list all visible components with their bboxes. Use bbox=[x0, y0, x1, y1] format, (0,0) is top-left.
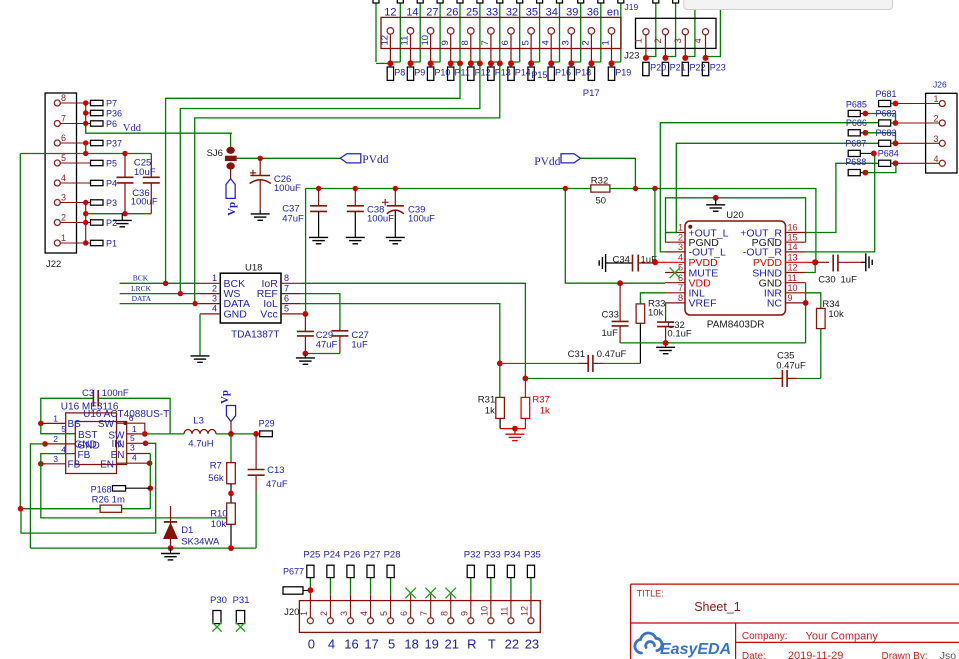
svg-text:5: 5 bbox=[678, 263, 683, 273]
connector J20 bbox=[299, 601, 540, 633]
svg-text:1uF: 1uF bbox=[841, 274, 858, 285]
svg-text:7: 7 bbox=[480, 40, 491, 45]
EasyEDA logo bbox=[635, 633, 662, 653]
svg-text:1k: 1k bbox=[540, 405, 550, 416]
svg-text:Vdd: Vdd bbox=[123, 123, 142, 134]
svg-text:P15: P15 bbox=[531, 70, 547, 80]
svg-text:U16 ACT4088US-T: U16 ACT4088US-T bbox=[83, 409, 169, 420]
svg-text:100uF: 100uF bbox=[131, 197, 158, 208]
svg-text:2: 2 bbox=[653, 38, 664, 43]
svg-text:C31: C31 bbox=[568, 349, 585, 360]
ground C29 bbox=[304, 354, 306, 358]
svg-text:6: 6 bbox=[399, 611, 409, 616]
capacitor C3 bbox=[92, 390, 94, 407]
svg-text:3: 3 bbox=[678, 242, 683, 252]
net port Vp upper bbox=[230, 170, 232, 179]
svg-text:TITLE:: TITLE: bbox=[637, 589, 664, 599]
svg-text:2: 2 bbox=[61, 213, 66, 223]
svg-text:34: 34 bbox=[546, 7, 558, 19]
svg-text:22: 22 bbox=[505, 637, 519, 652]
svg-text:0: 0 bbox=[308, 637, 315, 652]
wire C31 to R33 bottom bbox=[639, 323, 641, 363]
ground R31 R37 selected bbox=[514, 429, 516, 435]
svg-text:PVdd: PVdd bbox=[534, 156, 560, 168]
svg-text:P18: P18 bbox=[575, 68, 591, 78]
svg-text:C13: C13 bbox=[267, 465, 284, 476]
wire IoR to R37 bbox=[301, 283, 526, 378]
svg-text:Sheet_1: Sheet_1 bbox=[694, 600, 741, 614]
capacitor C29 bbox=[304, 314, 306, 332]
svg-text:5: 5 bbox=[284, 304, 289, 314]
ground J22 caps bbox=[121, 214, 123, 221]
pins U18 right bbox=[281, 282, 301, 284]
pin BS U16 bbox=[41, 422, 66, 424]
svg-text:100uF: 100uF bbox=[367, 213, 394, 224]
wire SHND to PVDD bbox=[806, 262, 816, 272]
svg-text:P686: P686 bbox=[846, 118, 867, 128]
svg-text:P8: P8 bbox=[394, 68, 405, 78]
wire C3 top loop bbox=[41, 398, 94, 423]
svg-text:13: 13 bbox=[788, 253, 798, 263]
ground C26 bbox=[251, 213, 270, 215]
pin IN U16 bbox=[127, 442, 146, 444]
svg-text:10k: 10k bbox=[648, 308, 664, 319]
wire C27 to C29 bottom bbox=[305, 353, 340, 355]
svg-text:C34: C34 bbox=[613, 254, 630, 265]
svg-text:11: 11 bbox=[788, 273, 797, 283]
svg-text:P9: P9 bbox=[414, 68, 425, 78]
svg-text:Vcc: Vcc bbox=[260, 309, 278, 321]
pin SW lower U16 bbox=[127, 433, 145, 435]
svg-text:4: 4 bbox=[61, 444, 66, 454]
resistor R10 bbox=[227, 503, 236, 524]
svg-text:11: 11 bbox=[499, 607, 509, 616]
svg-text:P29: P29 bbox=[259, 419, 275, 429]
svg-text:0.47uF: 0.47uF bbox=[597, 349, 627, 360]
svg-text:6: 6 bbox=[500, 40, 511, 45]
regulator U16 boxes bbox=[66, 413, 117, 474]
pin EN lower U16 bbox=[117, 462, 150, 464]
svg-text:12: 12 bbox=[788, 263, 798, 273]
svg-text:P21: P21 bbox=[670, 63, 686, 73]
svg-text:P22: P22 bbox=[690, 63, 706, 73]
connector J19 bbox=[381, 17, 621, 48]
svg-text:4.7uH: 4.7uH bbox=[188, 439, 213, 450]
net label wire LRCK bbox=[120, 293, 200, 295]
svg-text:4: 4 bbox=[540, 40, 551, 45]
pads P8-P19 bbox=[387, 67, 393, 80]
svg-text:1uF: 1uF bbox=[602, 328, 619, 339]
svg-text:P26: P26 bbox=[344, 550, 361, 561]
svg-text:P5: P5 bbox=[106, 159, 117, 169]
svg-text:1: 1 bbox=[601, 40, 612, 45]
wire PVdd rail bbox=[306, 188, 591, 190]
svg-text:P16: P16 bbox=[555, 68, 571, 78]
svg-text:T: T bbox=[488, 637, 496, 652]
resistor R7 bbox=[230, 434, 232, 463]
resistor R32 bbox=[591, 185, 610, 192]
svg-text:SW: SW bbox=[98, 419, 115, 430]
svg-text:R10: R10 bbox=[210, 508, 227, 519]
pins U20 right bbox=[786, 232, 806, 234]
wire VDD net bbox=[565, 189, 665, 284]
svg-text:3: 3 bbox=[212, 293, 217, 303]
svg-text:3: 3 bbox=[61, 193, 66, 203]
svg-text:R26 1m: R26 1m bbox=[92, 495, 125, 506]
svg-text:10: 10 bbox=[420, 35, 431, 46]
svg-text:21: 21 bbox=[445, 637, 459, 652]
svg-text:EN: EN bbox=[100, 460, 114, 471]
resistor R34 bbox=[817, 308, 826, 328]
svg-text:P33: P33 bbox=[484, 550, 501, 561]
pads P685 P686 P687 P688 bbox=[848, 110, 860, 116]
svg-text:VREF: VREF bbox=[689, 298, 717, 310]
svg-text:3: 3 bbox=[130, 443, 135, 453]
svg-text:4: 4 bbox=[328, 637, 335, 652]
capacitor C38 bbox=[354, 189, 356, 206]
svg-text:0.47uF: 0.47uF bbox=[776, 360, 806, 371]
svg-text:Vp: Vp bbox=[226, 202, 238, 216]
title block frame bbox=[631, 584, 959, 659]
wire P685 jog bbox=[865, 114, 895, 124]
svg-text:P31: P31 bbox=[233, 595, 250, 606]
capacitor C37 bbox=[318, 189, 320, 206]
wire GND pin11 and NC bbox=[805, 283, 807, 343]
svg-text:3: 3 bbox=[53, 454, 58, 464]
svg-text:PVdd: PVdd bbox=[362, 154, 388, 166]
svg-text:P168: P168 bbox=[91, 485, 112, 495]
svg-text:C33: C33 bbox=[602, 310, 619, 321]
svg-text:2: 2 bbox=[678, 232, 683, 242]
svg-text:10: 10 bbox=[479, 606, 489, 616]
ground C32 bbox=[665, 343, 667, 347]
svg-text:R37: R37 bbox=[532, 394, 549, 405]
wire top header columns J19 bbox=[375, 3, 377, 62]
svg-text:NC: NC bbox=[767, 298, 783, 310]
connector J26 bbox=[926, 93, 957, 173]
svg-text:Jso: Jso bbox=[940, 650, 957, 659]
inductor L3 bbox=[184, 430, 216, 434]
svg-text:4: 4 bbox=[693, 38, 704, 43]
junction dots J22 bbox=[83, 100, 88, 105]
pin FB U16 bbox=[41, 463, 66, 465]
svg-text:P24: P24 bbox=[323, 550, 340, 561]
svg-text:5: 5 bbox=[520, 40, 531, 45]
svg-text:39: 39 bbox=[566, 7, 578, 19]
svg-text:BS: BS bbox=[68, 419, 82, 430]
diode D1 SK34WA bbox=[170, 506, 172, 523]
svg-text:1: 1 bbox=[633, 38, 644, 43]
svg-text:56k: 56k bbox=[208, 473, 224, 484]
svg-text:R32: R32 bbox=[591, 176, 608, 187]
svg-text:3: 3 bbox=[561, 40, 572, 45]
svg-text:J19: J19 bbox=[625, 2, 639, 12]
connector J22 bbox=[45, 93, 76, 253]
capacitor C39 polarized bbox=[394, 189, 396, 206]
svg-text:P4: P4 bbox=[106, 179, 117, 189]
svg-text:14: 14 bbox=[788, 242, 798, 252]
pins U18 left bbox=[200, 282, 220, 284]
svg-text:7: 7 bbox=[419, 611, 429, 616]
svg-text:P14: P14 bbox=[515, 68, 531, 78]
capacitor C26 polarized bbox=[259, 158, 261, 175]
ground D1 bbox=[170, 548, 172, 553]
capacitor C33 bbox=[619, 283, 621, 321]
svg-text:2: 2 bbox=[934, 114, 939, 124]
wire +OUT_L loop to J26 bbox=[665, 143, 879, 232]
amplifier U20 PAM8403DR box bbox=[685, 221, 786, 315]
wire BCK column bbox=[166, 63, 460, 283]
svg-text:EasyEDA: EasyEDA bbox=[660, 641, 731, 658]
svg-text:P7: P7 bbox=[106, 99, 117, 109]
svg-text:4: 4 bbox=[132, 453, 137, 463]
svg-text:5: 5 bbox=[61, 424, 66, 434]
svg-text:Your Company: Your Company bbox=[806, 630, 879, 642]
wire -OUT_L loop to J26 bbox=[660, 123, 878, 252]
pin EN upper U16 bbox=[127, 453, 151, 455]
wire J22 lower chain bbox=[85, 203, 87, 244]
pin GND U16 bbox=[45, 443, 75, 445]
wire P686 jog bbox=[865, 133, 895, 144]
svg-text:23: 23 bbox=[525, 637, 539, 652]
pin stubs J20 bbox=[309, 594, 311, 617]
svg-text:P37: P37 bbox=[106, 139, 122, 149]
svg-text:35: 35 bbox=[526, 7, 538, 19]
svg-text:P17: P17 bbox=[583, 88, 600, 99]
svg-text:P12: P12 bbox=[475, 68, 491, 78]
wire FB to FB2 bbox=[41, 454, 76, 464]
svg-text:12: 12 bbox=[384, 7, 396, 19]
wire J23 columns bbox=[647, 3, 656, 58]
svg-text:1: 1 bbox=[53, 413, 58, 423]
svg-text:10: 10 bbox=[788, 283, 798, 293]
svg-text:GND: GND bbox=[224, 309, 248, 321]
wire INL to R33 bbox=[640, 293, 665, 304]
svg-text:8: 8 bbox=[284, 273, 289, 283]
svg-text:3: 3 bbox=[339, 611, 349, 616]
svg-text:C30: C30 bbox=[818, 274, 835, 285]
wire rail to Vcc bbox=[305, 189, 307, 314]
svg-text:U20: U20 bbox=[726, 210, 743, 221]
svg-text:Vp: Vp bbox=[219, 390, 231, 404]
svg-text:100uF: 100uF bbox=[274, 183, 301, 194]
wire IN loop bbox=[21, 443, 156, 533]
solder jumper SJ6 bbox=[230, 133, 232, 147]
svg-text:1: 1 bbox=[678, 223, 683, 233]
svg-text:R7: R7 bbox=[210, 461, 222, 472]
svg-text:9: 9 bbox=[440, 40, 451, 45]
svg-text:5: 5 bbox=[130, 433, 135, 443]
op-amp U18 TDA1387T box bbox=[220, 273, 281, 323]
svg-text:6: 6 bbox=[284, 293, 289, 303]
svg-text:2: 2 bbox=[581, 40, 592, 45]
pin SW upper U16 bbox=[117, 422, 126, 424]
svg-text:U18: U18 bbox=[245, 263, 262, 274]
svg-text:2: 2 bbox=[53, 434, 58, 444]
svg-text:P19: P19 bbox=[615, 68, 631, 78]
svg-text:P3: P3 bbox=[106, 198, 117, 208]
wire J22 P37 to bus bbox=[85, 143, 87, 154]
wire rail right of R32 bbox=[610, 189, 816, 263]
wire SW node to L3 bbox=[145, 433, 184, 435]
svg-text:8: 8 bbox=[61, 93, 66, 103]
top pads J23 columns bbox=[653, 0, 659, 3]
svg-text:1: 1 bbox=[934, 94, 939, 104]
wire rail to C34 node bbox=[654, 189, 656, 263]
svg-text:Date:: Date: bbox=[742, 651, 766, 659]
svg-text:3: 3 bbox=[673, 38, 684, 43]
wire J22 vdd chain bbox=[85, 103, 87, 124]
capacitor C31 bbox=[497, 361, 503, 367]
wire P688 jog bbox=[865, 163, 896, 172]
svg-text:9: 9 bbox=[788, 293, 793, 303]
svg-text:2: 2 bbox=[319, 611, 329, 616]
svg-text:J20: J20 bbox=[284, 607, 299, 618]
svg-text:P27: P27 bbox=[364, 550, 381, 561]
svg-text:1k: 1k bbox=[485, 405, 495, 416]
svg-text:P684: P684 bbox=[878, 149, 899, 159]
svg-text:5: 5 bbox=[61, 153, 66, 163]
wire R31 R37 bottom bbox=[500, 428, 525, 430]
svg-text:R31: R31 bbox=[478, 394, 495, 405]
svg-text:P32: P32 bbox=[464, 550, 481, 561]
svg-text:6: 6 bbox=[129, 413, 134, 423]
svg-text:7: 7 bbox=[61, 114, 66, 124]
capacitor C36 bbox=[124, 154, 126, 178]
svg-text:P2: P2 bbox=[106, 218, 117, 228]
svg-text:P13: P13 bbox=[495, 68, 511, 78]
svg-text:J22: J22 bbox=[46, 259, 61, 270]
svg-text:J26: J26 bbox=[933, 80, 947, 90]
wire U18 GND pin to ground bbox=[199, 314, 201, 356]
wire ground net bottom left bbox=[30, 547, 254, 549]
svg-text:P683: P683 bbox=[876, 128, 897, 138]
svg-text:11: 11 bbox=[400, 36, 411, 46]
svg-text:19: 19 bbox=[424, 637, 438, 652]
resistor R33 bbox=[636, 304, 645, 323]
svg-text:P1: P1 bbox=[106, 239, 117, 249]
wire GND pin left down bbox=[30, 444, 45, 548]
svg-text:10k: 10k bbox=[828, 309, 844, 320]
svg-text:SK34WA: SK34WA bbox=[181, 537, 220, 548]
svg-text:FB: FB bbox=[68, 460, 81, 471]
svg-text:9: 9 bbox=[459, 611, 469, 616]
svg-text:DATA: DATA bbox=[132, 294, 152, 303]
wire GND net bottom bbox=[620, 342, 806, 344]
svg-text:P35: P35 bbox=[524, 550, 541, 561]
svg-text:2019-11-29: 2019-11-29 bbox=[788, 650, 843, 659]
no-connect X marks J20 pins 6 7 8 bbox=[405, 588, 416, 599]
svg-text:P685: P685 bbox=[846, 99, 867, 109]
svg-text:P11: P11 bbox=[455, 68, 470, 78]
pin wires J22 bbox=[60, 102, 90, 104]
wire DATA column bbox=[195, 63, 500, 303]
wire Vcc junction bbox=[301, 313, 306, 315]
svg-text:P28: P28 bbox=[384, 550, 401, 561]
pad P29 bbox=[260, 431, 273, 437]
svg-text:R: R bbox=[467, 637, 476, 652]
svg-text:3: 3 bbox=[934, 134, 939, 144]
svg-text:50: 50 bbox=[596, 196, 607, 207]
svg-text:2: 2 bbox=[212, 283, 217, 293]
svg-text:TDA1387T: TDA1387T bbox=[231, 329, 279, 340]
svg-text:33: 33 bbox=[486, 7, 498, 19]
svg-text:D1: D1 bbox=[181, 525, 193, 536]
svg-text:7: 7 bbox=[284, 283, 289, 293]
capacitor C35 bbox=[525, 377, 772, 379]
wire C25 C36 bottom bbox=[86, 213, 152, 215]
svg-text:10uF: 10uF bbox=[134, 167, 156, 178]
svg-text:L3: L3 bbox=[193, 415, 204, 426]
svg-text:18: 18 bbox=[404, 637, 418, 652]
svg-text:25: 25 bbox=[466, 7, 478, 19]
svg-text:26: 26 bbox=[446, 7, 458, 19]
wire EN chain to P168 bbox=[149, 454, 151, 509]
svg-text:4: 4 bbox=[359, 611, 369, 616]
svg-text:LRCK: LRCK bbox=[131, 284, 152, 293]
pins U20 left bbox=[665, 232, 685, 234]
wire PVDD pin13 bbox=[806, 261, 816, 263]
svg-text:P677: P677 bbox=[283, 566, 304, 576]
wire VREF to C32 bbox=[664, 303, 667, 317]
svg-text:16: 16 bbox=[788, 223, 798, 233]
svg-text:8: 8 bbox=[460, 40, 471, 45]
svg-text:C3: C3 bbox=[82, 388, 94, 399]
wire LRCK column bbox=[180, 63, 480, 293]
wire left long vertical bbox=[19, 154, 21, 509]
svg-text:P20: P20 bbox=[650, 63, 666, 73]
svg-text:100nF: 100nF bbox=[102, 388, 129, 399]
svg-text:1: 1 bbox=[212, 273, 217, 283]
wire +OUT_R loop bbox=[806, 163, 879, 232]
wire FB to R10 divider bbox=[41, 464, 227, 518]
wire -OUT_R loop bbox=[806, 153, 875, 252]
svg-text:BCK: BCK bbox=[133, 274, 149, 283]
connector J23 bbox=[636, 18, 717, 48]
wire REF to C27 bbox=[301, 294, 340, 331]
svg-text:15: 15 bbox=[788, 232, 798, 242]
tooltip popup top right bbox=[684, 0, 893, 10]
junction dots J19 pads bbox=[387, 60, 393, 66]
net label wire DATA bbox=[120, 303, 200, 305]
svg-text:47uF: 47uF bbox=[266, 479, 288, 490]
svg-text:P25: P25 bbox=[303, 550, 320, 561]
no-connect X on MUTE bbox=[670, 268, 681, 279]
svg-text:P10: P10 bbox=[434, 68, 450, 78]
svg-text:P36: P36 bbox=[106, 109, 122, 119]
svg-text:en: en bbox=[607, 7, 619, 19]
svg-text:16: 16 bbox=[344, 637, 358, 652]
pad row top edge J19 bbox=[373, 0, 379, 3]
capacitor C34 with ground bbox=[605, 254, 607, 272]
junction dots J23 bbox=[643, 55, 649, 61]
svg-text:6: 6 bbox=[61, 133, 66, 143]
svg-text:27: 27 bbox=[426, 7, 438, 19]
svg-text:47uF: 47uF bbox=[316, 339, 338, 350]
svg-text:47uF: 47uF bbox=[282, 213, 304, 224]
net label wire BCK bbox=[120, 282, 200, 284]
wire PVdd flag to rail bbox=[581, 158, 636, 188]
svg-text:36: 36 bbox=[587, 7, 599, 19]
svg-text:SJ6: SJ6 bbox=[207, 148, 223, 159]
svg-text:4: 4 bbox=[678, 253, 683, 263]
svg-text:P6: P6 bbox=[106, 119, 117, 129]
net flag PVdd left bbox=[340, 154, 361, 163]
svg-text:P23: P23 bbox=[710, 63, 726, 73]
svg-text:7: 7 bbox=[678, 283, 683, 293]
svg-text:Company:: Company: bbox=[742, 631, 788, 642]
pad P168 bbox=[113, 486, 126, 492]
